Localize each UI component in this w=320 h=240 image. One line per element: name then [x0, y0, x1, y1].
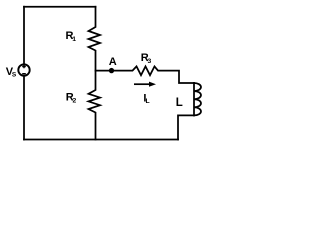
svg-text:A: A — [109, 56, 117, 68]
svg-text:L: L — [176, 97, 183, 109]
